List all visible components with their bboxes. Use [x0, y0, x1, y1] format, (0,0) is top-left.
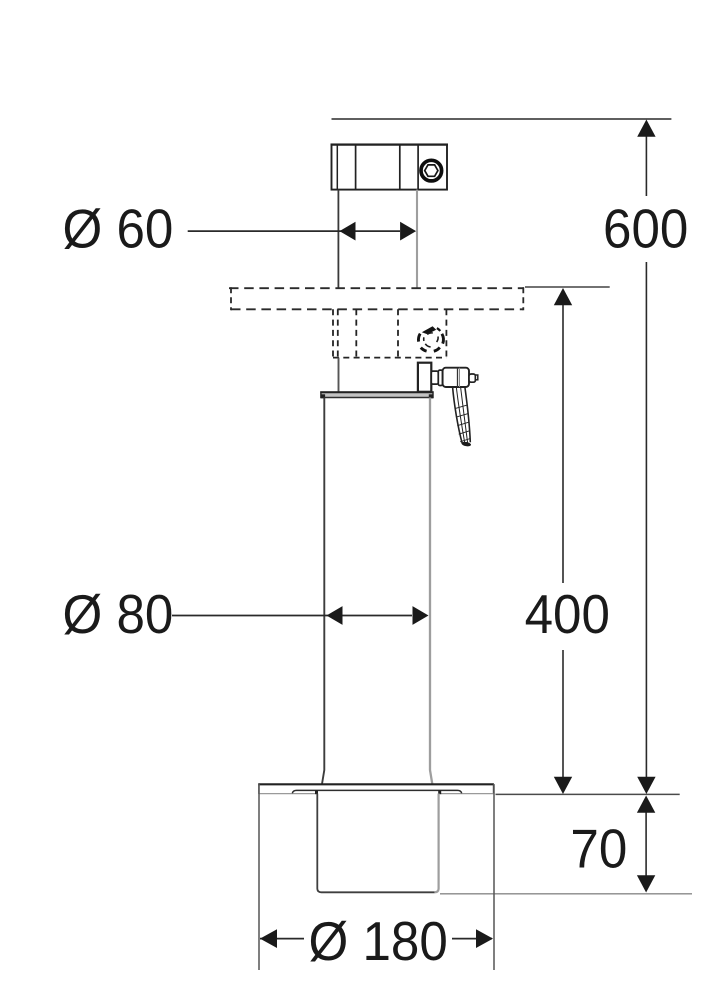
svg-text:Ø 80: Ø 80: [63, 584, 174, 645]
svg-text:600: 600: [603, 199, 688, 260]
svg-text:Ø 180: Ø 180: [309, 912, 448, 973]
svg-text:400: 400: [525, 584, 610, 645]
svg-text:70: 70: [570, 819, 627, 880]
svg-text:Ø 60: Ø 60: [63, 199, 174, 260]
